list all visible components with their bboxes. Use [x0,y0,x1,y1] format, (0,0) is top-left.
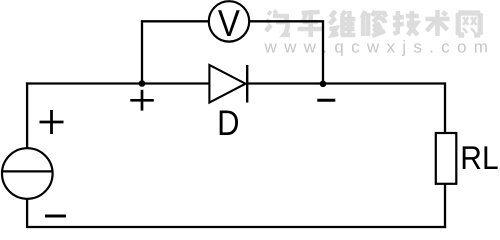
watermark chinese text 汽车维修技术网 [266,10,480,37]
diode D triangle [209,65,245,103]
char 汽 [266,11,290,35]
wire: top rail left segment from source corner to diode anode [26,82,210,84]
char 网 [458,13,480,35]
wire: left vertical from source bottom to bottom rail [26,199,28,228]
wire: bottom rail [26,226,446,228]
wire: left vertical from top rail down to source top [26,82,28,148]
voltmeter V [209,1,249,41]
plus label at diode anode node [130,90,154,111]
svg-text:D: D [217,103,239,143]
diode D cathode bar [246,65,248,103]
current source symbol [2,148,53,199]
char 维 [329,11,355,36]
minus label at source negative terminal [45,215,66,218]
plus label at source positive terminal [40,110,64,134]
wire: top rail right segment from diode cathode to right corner, down to resistor [247,84,445,134]
svg-text:V: V [218,2,240,44]
char 术 [426,10,450,36]
char 修 [362,11,386,36]
wire: voltmeter left branch from node A up and to voltmeter [142,21,209,84]
char 技 [393,11,419,35]
resistor RL body [436,133,457,184]
wire: voltmeter right branch from voltmeter to node B [249,21,323,84]
minus label at diode cathode node [317,99,335,102]
svg-text:RL: RL [460,141,498,177]
node B junction dot [320,81,327,88]
node A junction dot [139,80,146,87]
svg-text:www.qcwxjs.com: www.qcwxjs.com [264,38,496,57]
char 车 [298,10,324,37]
wire: right vertical from resistor bottom to bottom rail [444,184,446,229]
